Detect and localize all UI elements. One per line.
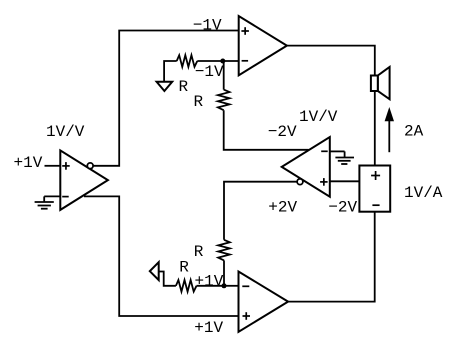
wire: box bottom down to bottom op-amp output (288, 212, 375, 302)
U1 +in symbol (62, 162, 69, 170)
resistor R2 (vertical) (218, 90, 230, 111)
svg-text:−2V: −2V (328, 199, 357, 217)
svg-text:−1V: −1V (195, 63, 224, 81)
arrow ground (top, open triangle down) (157, 82, 173, 91)
arrow ground (bottom, open triangle left) (150, 262, 159, 280)
wire: U3 +in to box (330, 180, 360, 182)
ground (U3 -in) (335, 151, 354, 164)
svg-text:+1V: +1V (195, 272, 224, 290)
svg-text:−1V: −1V (193, 16, 222, 34)
junction dot (U2 -in node) (220, 59, 225, 64)
speaker SPK cone (378, 67, 390, 99)
U2 +in symbol (241, 27, 249, 35)
op-amp U2 (top) (239, 16, 287, 75)
box 1V/A (CCVS) (359, 166, 390, 212)
svg-text:1V/V: 1V/V (46, 123, 85, 141)
U1 output circle (87, 163, 93, 169)
wire: ground to left op-amp -in (44, 195, 60, 197)
U3 -in symbol (321, 150, 328, 152)
wire: dot down to R2 (223, 61, 225, 90)
wire: R3 down to junction dot (223, 260, 225, 285)
junction dot (U4 -in node) (222, 283, 227, 288)
wire: U2 output to speaker/box (287, 46, 375, 166)
wire: left op-amp lower edge down to bottom op-amp +in (84, 196, 239, 316)
resistor R1 (horizontal, top) (177, 55, 198, 67)
svg-text:+2V: +2V (268, 199, 297, 217)
svg-text:+1V: +1V (14, 154, 43, 172)
wire: R1 to arrow-ground (164, 61, 177, 82)
speaker SPK magnet box (371, 76, 378, 92)
svg-text:2A: 2A (404, 123, 424, 141)
op-amp U1 (left, buffer 1V/V) (60, 150, 108, 210)
wire: dot left to resistor R4 (197, 285, 225, 287)
wire: R4 to arrow-ground tail (159, 272, 176, 286)
U4 -in symbol (242, 285, 249, 287)
box + symbol (371, 171, 380, 180)
U3 output circle (297, 179, 303, 185)
wire: left op-amp output circle up to top op-amp +in (93, 31, 239, 166)
resistor R4 (horizontal, bottom) (176, 280, 197, 292)
box - symbol (372, 204, 379, 206)
U3 +in symbol (320, 178, 328, 186)
svg-text:+1V: +1V (194, 319, 223, 337)
wire: junction dot to U4 -in (224, 285, 239, 287)
svg-text:1V/A: 1V/A (404, 184, 443, 202)
svg-text:R: R (194, 93, 204, 111)
U2 -in symbol (242, 60, 249, 62)
svg-text:R: R (179, 258, 189, 276)
ground (left op-amp -in) (35, 196, 54, 208)
current arrow 2A (385, 107, 394, 152)
wire: U3 -in to ground (330, 150, 345, 152)
wire: resistor R1 to U2 -in (197, 60, 238, 62)
op-amp U3 (middle, points left) (282, 137, 330, 197)
U4 +in symbol (243, 312, 251, 320)
op-amp U4 (bottom) (239, 272, 289, 332)
svg-text:R: R (194, 243, 204, 261)
svg-text:1V/V: 1V/V (299, 108, 338, 126)
svg-text:−2V: −2V (268, 123, 297, 141)
resistor R3 (vertical, bottom) (218, 240, 230, 261)
wire: R2 down then right to U3 top edge (224, 110, 309, 150)
svg-text:R: R (179, 78, 189, 96)
wire: +1V input to left op-amp (45, 165, 61, 167)
wire: U3 output left then down to R3 (224, 182, 297, 240)
U1 -in symbol (62, 196, 68, 198)
